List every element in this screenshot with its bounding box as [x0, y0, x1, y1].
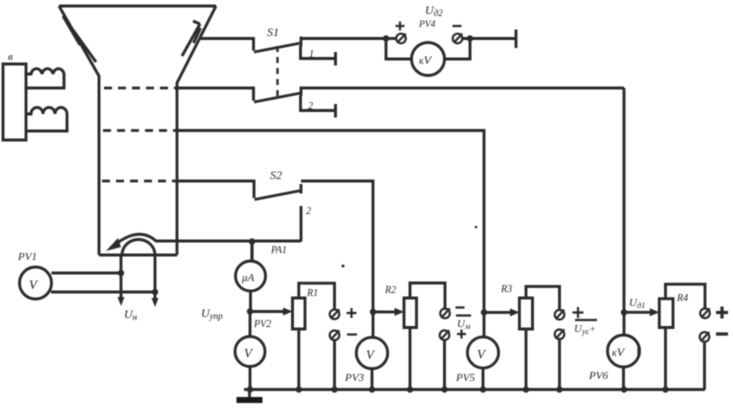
svg-text:PV5: PV5	[455, 372, 475, 384]
svg-text:S2: S2	[270, 168, 282, 182]
svg-text:2: 2	[308, 101, 313, 112]
svg-text:PA1: PA1	[270, 245, 287, 256]
svg-text:PV3: PV3	[344, 372, 364, 384]
svg-text:R4: R4	[676, 293, 688, 304]
svg-text:кV: кV	[419, 53, 433, 67]
svg-text:μА: μА	[241, 272, 255, 284]
svg-text:1: 1	[309, 49, 314, 60]
svg-text:PV2: PV2	[253, 319, 271, 330]
svg-text:PV1: PV1	[17, 251, 37, 263]
svg-text:в: в	[8, 51, 13, 63]
svg-text:кV: кV	[612, 345, 626, 359]
svg-text:PV6: PV6	[588, 370, 608, 382]
svg-text:PV4: PV4	[418, 20, 436, 30]
svg-text:R2: R2	[384, 285, 396, 296]
svg-text:S1: S1	[267, 25, 279, 39]
svg-text:R3: R3	[500, 284, 512, 295]
svg-text:2: 2	[306, 206, 311, 217]
svg-text:R1: R1	[306, 288, 318, 299]
